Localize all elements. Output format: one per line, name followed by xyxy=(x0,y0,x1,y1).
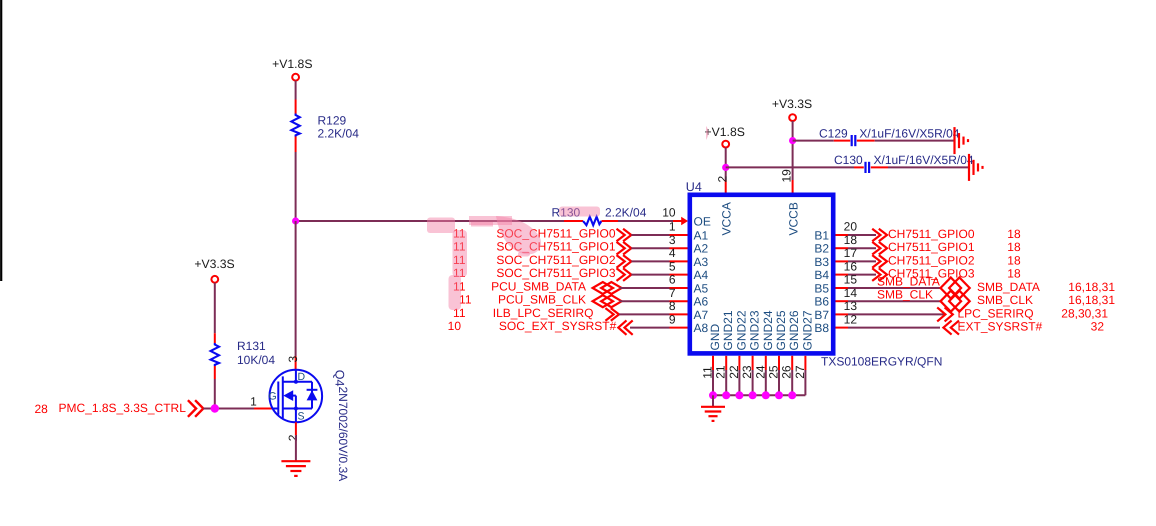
wire +V1.8S down to VCCA xyxy=(725,148,727,181)
pin 1 of R130 xyxy=(564,220,583,222)
svg-text:28,30,31: 28,30,31 xyxy=(1061,306,1108,320)
pin 2 of R130 xyxy=(602,220,619,222)
svg-text:A6: A6 xyxy=(694,295,709,309)
svg-text:+V3.3S: +V3.3S xyxy=(194,257,234,271)
wire SOC_CH7511_GPIO1 to U4 xyxy=(631,247,669,249)
svg-text:10K/04: 10K/04 xyxy=(237,353,275,367)
svg-text:3: 3 xyxy=(286,356,300,363)
pin 1 of C129 xyxy=(834,140,850,142)
junction GND bus xyxy=(709,391,717,399)
svg-text:VCCA: VCCA xyxy=(719,202,733,235)
svg-text:16,18,31: 16,18,31 xyxy=(1068,293,1115,307)
ground right of C129 xyxy=(955,127,969,154)
pin 9 of U4 xyxy=(670,327,688,329)
svg-text:+V1.8S: +V1.8S xyxy=(705,125,745,139)
wire C130 to ground xyxy=(888,166,968,168)
pin 1 of R129 xyxy=(295,100,297,114)
wire GND pin 24 xyxy=(765,370,767,395)
port chevron SOC_EXT_SYSRST# xyxy=(618,320,632,334)
svg-text:B7: B7 xyxy=(814,308,829,322)
svg-text:23: 23 xyxy=(740,365,754,379)
schematic frame border segment xyxy=(0,0,2,281)
svg-text:SOC_EXT_SYSRST#: SOC_EXT_SYSRST# xyxy=(499,319,617,333)
resistor R129 xyxy=(291,114,299,137)
pin 12 of U4 xyxy=(836,327,849,329)
svg-text:G: G xyxy=(269,391,277,403)
svg-text:18: 18 xyxy=(1007,227,1021,241)
svg-text:13: 13 xyxy=(844,299,858,313)
svg-text:SMB_CLK: SMB_CLK xyxy=(977,293,1033,307)
wire PCU_SMB_DATA to U4 xyxy=(620,287,670,289)
pin 2 of U4 (VCCA) xyxy=(725,180,727,193)
svg-text:ILB_LPC_SERIRQ: ILB_LPC_SERIRQ xyxy=(493,306,594,320)
wire port to Q4 gate xyxy=(203,408,254,410)
pin 1 of C130 xyxy=(854,166,864,168)
wire SOC_CH7511_GPIO0 to U4 xyxy=(631,234,669,236)
pin 6 of U4 xyxy=(670,287,688,289)
wire GND pin 22 xyxy=(738,370,740,395)
svg-text:18: 18 xyxy=(844,233,858,247)
pin 2 of C129 xyxy=(857,140,875,142)
wire U4 to SMB_CLK xyxy=(848,300,941,302)
svg-text:CH7511_GPIO0: CH7511_GPIO0 xyxy=(888,227,975,241)
svg-text:GND21: GND21 xyxy=(721,310,735,350)
wire node to R130 xyxy=(296,220,564,222)
svg-text:16,18,31: 16,18,31 xyxy=(1068,280,1115,294)
wire +V1.8S to C130 xyxy=(726,166,854,168)
svg-text:A7: A7 xyxy=(694,308,709,322)
wire GND pin 11 xyxy=(712,370,714,395)
svg-text:A4: A4 xyxy=(694,268,709,282)
pin 3 of Q4 (drain) xyxy=(295,356,297,371)
svg-text:SMB_DATA: SMB_DATA xyxy=(877,275,940,289)
highlight mark 6 xyxy=(471,222,493,227)
power symbol +V3.3S (left) xyxy=(211,276,218,283)
junction GND bus xyxy=(762,391,770,399)
pin 17 of U4 xyxy=(836,260,849,262)
power symbol +V1.8S xyxy=(292,74,299,81)
capacitor C129 xyxy=(852,135,856,146)
wire U4 to CH7511_GPIO3 xyxy=(848,274,876,276)
power symbol +V3.3S (top right) xyxy=(789,114,796,121)
svg-text:TXS0108ERGYR/QFN: TXS0108ERGYR/QFN xyxy=(821,355,942,369)
svg-text:B8: B8 xyxy=(814,321,829,335)
wire +V1.8S to R129 xyxy=(295,81,297,100)
svg-text:27: 27 xyxy=(793,365,807,379)
svg-text:19: 19 xyxy=(780,169,794,183)
junction +V1.8S / C130 xyxy=(722,164,729,171)
wire node down to Q4 drain xyxy=(295,221,297,356)
svg-text:2: 2 xyxy=(715,176,729,183)
svg-text:LPC_SERIRQ: LPC_SERIRQ xyxy=(958,306,1034,320)
wire stub at OE pin xyxy=(673,220,682,222)
svg-text:5: 5 xyxy=(669,259,676,273)
svg-text:C129: C129 xyxy=(819,126,848,140)
svg-text:6: 6 xyxy=(669,273,676,287)
port chevron LPC_SERIRQ xyxy=(937,307,953,321)
svg-text:17: 17 xyxy=(844,246,858,260)
svg-text:GND: GND xyxy=(708,324,722,351)
svg-text:9: 9 xyxy=(669,312,676,326)
wire U4 to EXT_SYSRST# xyxy=(848,327,940,329)
svg-text:14: 14 xyxy=(844,286,858,300)
svg-text:3: 3 xyxy=(669,233,676,247)
svg-text:2: 2 xyxy=(286,434,300,441)
svg-text:25: 25 xyxy=(767,365,781,379)
junction GND bus xyxy=(735,391,743,399)
port diamond SMB_DATA xyxy=(941,278,970,299)
wire PCU_SMB_CLK to U4 xyxy=(620,300,670,302)
svg-text:A5: A5 xyxy=(694,282,709,296)
svg-text:A2: A2 xyxy=(694,242,709,256)
highlight mark 4 xyxy=(559,207,600,217)
svg-text:18: 18 xyxy=(1007,253,1021,267)
port diamond PCU_SMB_DATA xyxy=(593,282,622,294)
pin 1 of R131 xyxy=(214,333,216,343)
svg-text:26: 26 xyxy=(780,365,794,379)
svg-text:GND22: GND22 xyxy=(734,310,748,350)
pin 2 of R129 xyxy=(295,137,297,153)
wire Q4 source to ground xyxy=(295,435,297,461)
svg-text:8: 8 xyxy=(669,299,676,313)
svg-text:A3: A3 xyxy=(694,255,709,269)
svg-text:10: 10 xyxy=(662,206,676,220)
highlight mark 9 xyxy=(706,126,709,140)
pin 19 of U4 (VCCB) xyxy=(792,180,794,193)
junction GND bus xyxy=(775,391,783,399)
svg-text:GND25: GND25 xyxy=(774,310,788,350)
svg-text:+V3.3S: +V3.3S xyxy=(772,97,812,111)
svg-text:2.2K/04: 2.2K/04 xyxy=(318,127,360,141)
svg-text:A1: A1 xyxy=(694,229,709,243)
wire GND pin 26 xyxy=(791,370,793,395)
svg-text:1: 1 xyxy=(250,395,257,409)
pin 21 of U4 (GND) xyxy=(725,356,727,370)
capacitor C130 xyxy=(866,162,870,173)
svg-text:S: S xyxy=(298,411,305,423)
ground below U4 xyxy=(701,407,725,421)
pin 14 of U4 xyxy=(836,300,849,302)
port diamond SMB_CLK xyxy=(941,291,970,312)
junction GND bus xyxy=(749,391,757,399)
svg-text:10: 10 xyxy=(448,319,462,333)
svg-text:PCU_SMB_DATA: PCU_SMB_DATA xyxy=(491,280,586,294)
port diamond PCU_SMB_CLK xyxy=(593,295,622,307)
transistor Q4 xyxy=(269,370,323,423)
svg-text:SOC_CH7511_GPIO3: SOC_CH7511_GPIO3 xyxy=(496,266,615,280)
svg-text:15: 15 xyxy=(844,273,858,287)
svg-text:24: 24 xyxy=(753,365,767,379)
pin 2 of Q4 (source) xyxy=(295,422,297,435)
svg-text:20: 20 xyxy=(844,220,858,234)
svg-text:1: 1 xyxy=(669,220,676,234)
svg-text:B3: B3 xyxy=(814,255,829,269)
svg-text:GND27: GND27 xyxy=(800,310,814,350)
pin 8 of U4 xyxy=(670,313,688,315)
svg-text:B4: B4 xyxy=(814,268,829,282)
junction GND bus xyxy=(722,391,730,399)
wire ILB_LPC_SERIRQ to U4 xyxy=(619,313,670,315)
svg-text:16: 16 xyxy=(844,259,858,273)
junction +V3.3S / C129 xyxy=(789,137,796,144)
wire +V3.3S to R131 xyxy=(214,283,216,334)
svg-text:SMB_DATA: SMB_DATA xyxy=(977,280,1040,294)
svg-text:X/1uF/16V/X5R/04: X/1uF/16V/X5R/04 xyxy=(859,126,959,140)
OE pin arrow xyxy=(681,217,688,225)
svg-text:+V1.8S: +V1.8S xyxy=(272,57,312,71)
port chevron CH7511_GPIO0 xyxy=(872,229,887,242)
port chevron SOC_CH7511_GPIO0 xyxy=(617,229,632,242)
ground below Q4 xyxy=(281,461,310,476)
wire GND pin 23 xyxy=(752,370,754,395)
svg-text:2N7002/60V/0.3A: 2N7002/60V/0.3A xyxy=(336,387,350,482)
svg-text:B5: B5 xyxy=(814,282,829,296)
highlight mark 3 xyxy=(449,275,462,310)
pin 5 of U4 xyxy=(670,274,688,276)
wire GND pin 21 xyxy=(725,370,727,395)
wire +V3.3S to C129 xyxy=(793,140,834,142)
svg-text:21: 21 xyxy=(714,365,728,379)
port chevron SOC_CH7511_GPIO2 xyxy=(617,255,632,268)
wire SOC_EXT_SYSRST# to U4 xyxy=(630,327,670,329)
junction at R129/R130 node xyxy=(292,217,299,224)
svg-text:22: 22 xyxy=(727,365,741,379)
highlight mark 2 xyxy=(453,230,468,277)
svg-text:A8: A8 xyxy=(694,321,709,335)
wire GND pin 25 xyxy=(778,370,780,395)
resistor R131 xyxy=(211,343,219,366)
highlight mark 1 xyxy=(427,218,455,234)
wire U4 to LPC_SERIRQ xyxy=(848,313,945,315)
svg-text:18: 18 xyxy=(1007,240,1021,254)
wire GND bus xyxy=(713,394,805,396)
pin 18 of U4 xyxy=(836,247,849,249)
svg-text:12: 12 xyxy=(844,312,858,326)
pin 23 of U4 (GND) xyxy=(752,356,754,370)
pin 2 of C130 xyxy=(871,166,888,168)
svg-text:7: 7 xyxy=(669,286,676,300)
wire R129 to node xyxy=(295,152,297,221)
power symbol +V1.8S (top right) xyxy=(722,141,729,148)
wire U4 to CH7511_GPIO2 xyxy=(848,260,876,262)
svg-text:SMB_CLK: SMB_CLK xyxy=(877,288,933,302)
wire C129 to ground xyxy=(875,140,954,142)
svg-text:B2: B2 xyxy=(814,242,829,256)
pin 13 of U4 xyxy=(836,313,849,315)
svg-text:R129: R129 xyxy=(318,113,347,127)
svg-text:4: 4 xyxy=(669,246,676,260)
wire U4 to CH7511_GPIO1 xyxy=(848,247,876,249)
highlight mark 8 xyxy=(518,252,530,257)
port chevron CH7511_GPIO3 xyxy=(872,268,887,281)
highlight mark 7 xyxy=(496,216,541,254)
svg-text:VCCB: VCCB xyxy=(786,202,800,235)
svg-text:CH7511_GPIO1: CH7511_GPIO1 xyxy=(888,240,975,254)
svg-text:32: 32 xyxy=(1091,320,1105,334)
ground right of C130 xyxy=(969,154,983,181)
wire R130 to OE xyxy=(618,220,673,222)
svg-text:D: D xyxy=(298,371,306,383)
highlight mark 5 xyxy=(469,216,512,225)
pin 24 of U4 (GND) xyxy=(765,356,767,370)
pin 25 of U4 (GND) xyxy=(778,356,780,370)
wire SOC_CH7511_GPIO3 to U4 xyxy=(631,274,669,276)
svg-text:B1: B1 xyxy=(814,229,829,243)
svg-text:Q4: Q4 xyxy=(333,370,347,387)
pin 15 of U4 xyxy=(836,287,849,289)
svg-text:11: 11 xyxy=(701,366,715,379)
wire +V3.3S down to VCCB xyxy=(792,121,794,180)
svg-text:SOC_CH7511_GPIO2: SOC_CH7511_GPIO2 xyxy=(496,253,615,267)
port chevron SOC_CH7511_GPIO3 xyxy=(617,268,632,281)
wire GND pin 27 xyxy=(804,370,806,395)
svg-text:2.2K/04: 2.2K/04 xyxy=(605,206,647,220)
svg-text:28: 28 xyxy=(35,402,49,416)
svg-text:GND26: GND26 xyxy=(787,310,801,350)
svg-text:B6: B6 xyxy=(814,295,829,309)
pin 1 of Q4 (gate) xyxy=(254,408,273,410)
svg-text:GND23: GND23 xyxy=(748,310,762,350)
svg-text:C130: C130 xyxy=(834,153,863,167)
pin 2 of R131 xyxy=(214,366,216,379)
port chevron CH7511_GPIO2 xyxy=(872,255,887,268)
wire U4 to CH7511_GPIO0 xyxy=(848,234,876,236)
pin 20 of U4 xyxy=(836,234,849,236)
input port chevron PMC_1.8S_3.3S_CTRL xyxy=(188,400,203,417)
svg-text:R131: R131 xyxy=(237,339,266,353)
svg-text:CH7511_GPIO2: CH7511_GPIO2 xyxy=(888,253,975,267)
port chevron SOC_CH7511_GPIO1 xyxy=(617,242,632,255)
wire R131 to gate net xyxy=(214,379,216,409)
wire GND bus to ground xyxy=(712,395,714,407)
wire SOC_CH7511_GPIO2 to U4 xyxy=(631,260,669,262)
junction GND bus xyxy=(788,391,796,399)
svg-text:EXT_SYSRST#: EXT_SYSRST# xyxy=(958,320,1043,334)
pin 3 of U4 xyxy=(670,247,688,249)
junction at R131/gate net xyxy=(211,404,219,412)
svg-text:PCU_SMB_CLK: PCU_SMB_CLK xyxy=(498,293,586,307)
pin 27 of U4 (GND) xyxy=(804,356,806,370)
svg-text:GND24: GND24 xyxy=(761,310,775,350)
svg-text:PMC_1.8S_3.3S_CTRL: PMC_1.8S_3.3S_CTRL xyxy=(59,401,187,415)
pin 16 of U4 xyxy=(836,274,849,276)
pin 7 of U4 xyxy=(670,300,688,302)
pin 11 of U4 (GND) xyxy=(712,356,714,370)
svg-text:U4: U4 xyxy=(686,180,702,194)
port chevron EXT_SYSRST# xyxy=(943,321,959,335)
op-amp U4 body (level shifter TXS0108) xyxy=(690,195,833,354)
resistor R130 xyxy=(583,217,602,225)
port chevron CH7511_GPIO1 xyxy=(872,242,887,255)
wire U4 to SMB_DATA xyxy=(848,287,941,289)
pin 4 of U4 xyxy=(670,260,688,262)
port chevron ILB_LPC_SERIRQ xyxy=(605,308,619,321)
pin 26 of U4 (GND) xyxy=(791,356,793,370)
svg-text:18: 18 xyxy=(1007,267,1021,281)
svg-text:X/1uF/16V/X5R/04: X/1uF/16V/X5R/04 xyxy=(874,153,974,167)
pin 1 of U4 xyxy=(670,234,688,236)
svg-text:OE: OE xyxy=(694,215,711,229)
pin 22 of U4 (GND) xyxy=(738,356,740,370)
